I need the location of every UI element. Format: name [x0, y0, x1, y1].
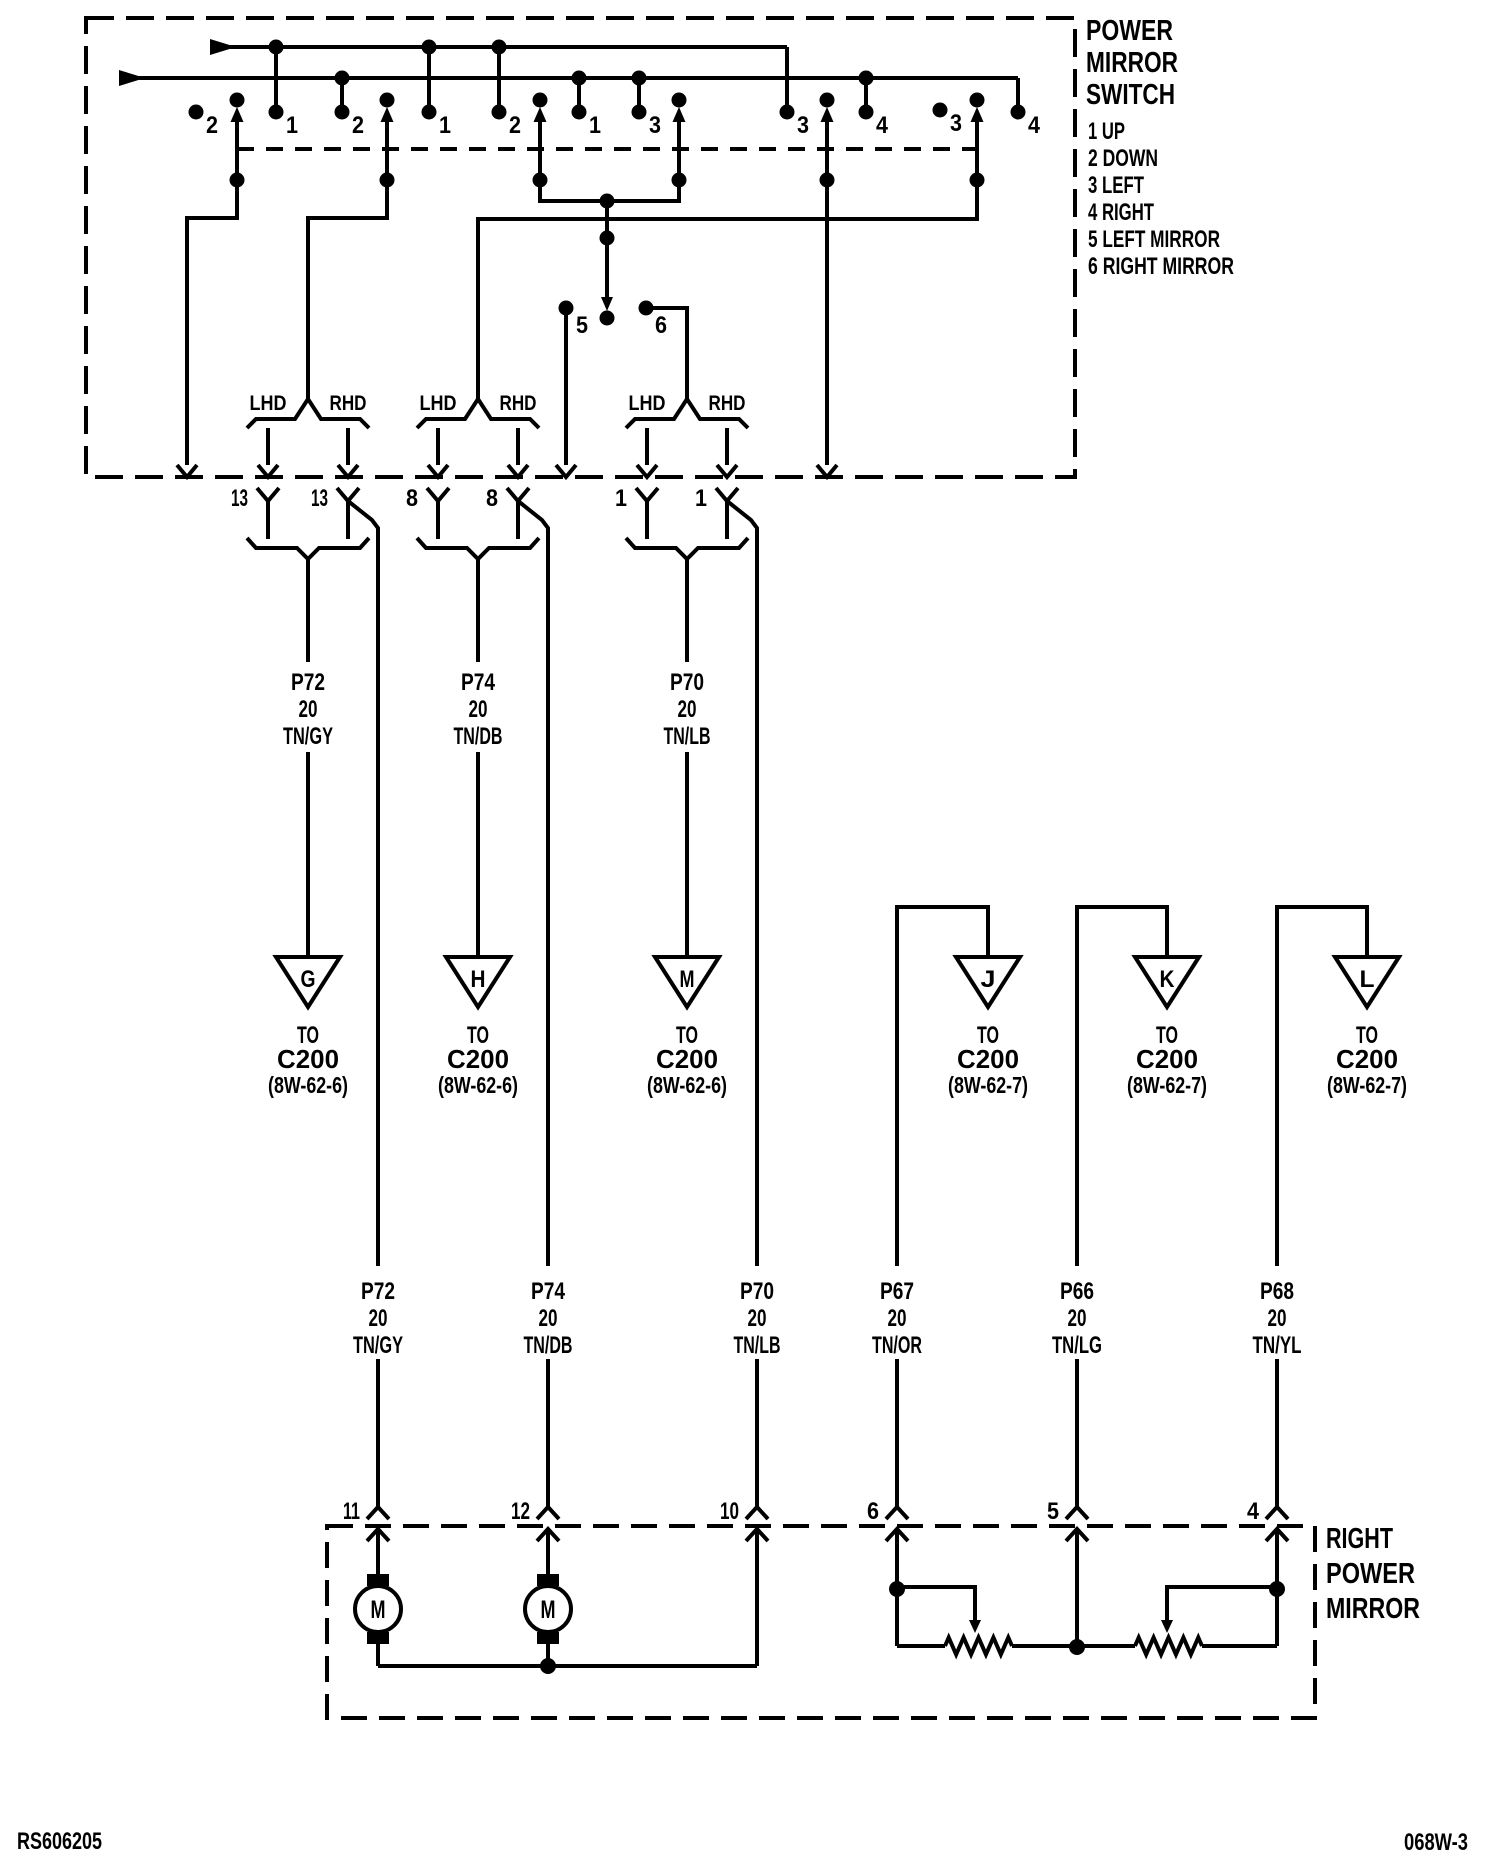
svg-text:P72: P72 [361, 1278, 395, 1305]
RHD arm wire x=348 [338, 428, 358, 477]
connector pin 13 (LHD) [231, 485, 279, 539]
svg-text:20: 20 [748, 1305, 767, 1332]
svg-text:20: 20 [888, 1305, 907, 1332]
destination text C200 under K [1127, 1022, 1207, 1098]
svg-text:TN/GY: TN/GY [283, 723, 333, 750]
svg-text:20: 20 [469, 696, 488, 723]
merge brace at x=308 [247, 538, 369, 559]
svg-text:TN/GY: TN/GY [353, 1332, 403, 1359]
svg-text:20: 20 [678, 696, 697, 723]
svg-text:(8W-62-7): (8W-62-7) [1127, 1072, 1207, 1098]
right power mirror box [327, 1526, 1315, 1718]
wire P70 lower segment [755, 1359, 759, 1507]
wiper 3 [533, 93, 608, 202]
svg-text:MIRROR: MIRROR [1326, 1593, 1420, 1625]
connector H triangle [446, 957, 510, 1007]
svg-text:P72: P72 [291, 669, 325, 696]
wire P74 lower segment [546, 1359, 550, 1507]
connector pin 8 (RHD) [486, 485, 529, 539]
svg-text:LHD: LHD [420, 392, 457, 415]
bus B junction dots [335, 71, 874, 86]
wire label P67 20 TN/OR [872, 1278, 922, 1359]
wire label P72 20 TN/GY [283, 669, 333, 750]
destination text C200 under J [948, 1022, 1028, 1098]
motor common wire [378, 1658, 757, 1674]
destination text C200 under L [1327, 1022, 1407, 1098]
RHD arm wire x=727 [717, 428, 737, 477]
wiper 4 [607, 93, 687, 202]
mechanical coupling dashed line [237, 147, 977, 151]
destination text C200 under G [268, 1022, 348, 1098]
connector L triangle [1335, 957, 1399, 1007]
svg-text:MIRROR: MIRROR [1086, 47, 1178, 79]
svg-text:2 DOWN: 2 DOWN [1088, 145, 1158, 172]
svg-text:M: M [680, 966, 695, 993]
svg-text:3: 3 [797, 112, 809, 139]
svg-text:POWER: POWER [1326, 1558, 1415, 1590]
connector pin 1 (RHD) [695, 485, 738, 539]
switch contact 2 at x=342 [335, 78, 365, 139]
svg-text:5: 5 [1047, 1498, 1059, 1525]
svg-text:1 UP: 1 UP [1088, 118, 1125, 145]
svg-text:P70: P70 [670, 669, 704, 696]
wire pin 4 down [1269, 1529, 1285, 1646]
switch contact 2 at x=196 [189, 105, 219, 140]
svg-text:11: 11 [343, 1498, 360, 1525]
svg-text:13: 13 [311, 485, 328, 512]
svg-text:20: 20 [1268, 1305, 1287, 1332]
svg-text:C200: C200 [1336, 1044, 1398, 1074]
svg-text:LHD: LHD [250, 392, 287, 415]
svg-text:SWITCH: SWITCH [1086, 79, 1175, 111]
svg-text:TN/OR: TN/OR [872, 1332, 922, 1359]
svg-text:20: 20 [1068, 1305, 1087, 1332]
R2 wiper arrow [1161, 1587, 1277, 1633]
svg-text:RIGHT: RIGHT [1326, 1523, 1393, 1555]
R1 wiper arrow [897, 1587, 981, 1633]
switch contact 3 at x=787 [780, 105, 810, 140]
wire P66 lower segment [1075, 1359, 1079, 1507]
svg-text:POWER: POWER [1086, 15, 1173, 47]
svg-text:(8W-62-7): (8W-62-7) [948, 1072, 1028, 1098]
svg-text:L: L [1360, 966, 1375, 993]
svg-text:TN/DB: TN/DB [524, 1332, 573, 1359]
svg-text:1: 1 [589, 112, 601, 139]
LHD arm wire x=438 [428, 428, 448, 477]
svg-text:6: 6 [655, 312, 667, 339]
svg-text:10: 10 [720, 1498, 739, 1525]
LHD/RHD brace at x=478 [417, 392, 539, 428]
pin 10 connector [720, 1498, 768, 1541]
svg-text:RHD: RHD [500, 392, 537, 415]
svg-text:20: 20 [299, 696, 318, 723]
svg-text:(8W-62-6): (8W-62-6) [268, 1072, 348, 1098]
wire pin 10 to motor common [755, 1529, 759, 1666]
connector pin 13 (RHD) [311, 485, 359, 539]
switch contact 1 at x=276 [269, 48, 299, 139]
svg-text:C200: C200 [447, 1044, 509, 1074]
wire label P74 20 TN/DB [454, 669, 503, 750]
mirror selector common node [600, 194, 615, 326]
contact 5 (left mirror) [556, 301, 588, 478]
svg-text:8: 8 [406, 485, 418, 512]
svg-text:TN/LG: TN/LG [1052, 1332, 1102, 1359]
svg-text:2: 2 [206, 112, 218, 139]
switch contact 3 at x=940 [933, 103, 963, 138]
svg-text:RHD: RHD [330, 392, 367, 415]
svg-text:2: 2 [352, 112, 364, 139]
wiper 6 [478, 93, 985, 400]
svg-text:P74: P74 [461, 669, 496, 696]
LHD/RHD brace at x=687 [626, 392, 748, 428]
pin 6 connector [867, 1498, 908, 1541]
switch legend [1088, 118, 1234, 280]
wire P74 to H [476, 559, 480, 956]
switch contact 2 at x=499 [492, 48, 522, 139]
wire label P70 20 TN/LB [664, 669, 711, 750]
bus B wire [119, 70, 1018, 112]
RHD branch wire to x=378 [348, 501, 378, 1266]
wire label P70 20 TN/LB (lower) [734, 1278, 781, 1359]
svg-text:C200: C200 [957, 1044, 1019, 1074]
wire label P68 20 TN/YL [1253, 1278, 1302, 1359]
right power mirror title [1326, 1523, 1420, 1625]
svg-text:6 RIGHT MIRROR: 6 RIGHT MIRROR [1088, 253, 1234, 280]
resistor R1 [897, 1638, 1135, 1655]
power mirror switch box [86, 18, 1075, 477]
wire label P72 20 TN/GY (lower) [353, 1278, 403, 1359]
svg-text:P68: P68 [1260, 1278, 1294, 1305]
wiper 1 [177, 93, 245, 478]
svg-text:20: 20 [369, 1305, 388, 1332]
LHD arm wire x=647 [637, 428, 657, 477]
wire P70 to M [685, 559, 689, 956]
svg-text:C200: C200 [656, 1044, 718, 1074]
svg-text:TN/LB: TN/LB [664, 723, 711, 750]
pin 4 connector [1247, 1498, 1288, 1541]
svg-text:TN/LB: TN/LB [734, 1332, 781, 1359]
svg-text:M: M [541, 1596, 556, 1624]
wire label P74 20 TN/DB (lower) [524, 1278, 573, 1359]
connector pin 1 (LHD) [615, 485, 658, 539]
wire P68 lower segment [1275, 1359, 1279, 1507]
motor M2 [525, 1529, 571, 1666]
svg-text:3: 3 [649, 112, 661, 139]
svg-text:RS606205: RS606205 [17, 1828, 102, 1855]
wire pin 6 down [889, 1529, 905, 1646]
wire pin 5 down [1069, 1529, 1085, 1655]
merge brace at x=478 [417, 538, 539, 559]
svg-text:M: M [371, 1596, 386, 1624]
switch contact 4 at x=866 [859, 78, 889, 139]
switch contact 1 at x=429 [422, 48, 452, 139]
RHD arm wire x=518 [508, 428, 528, 477]
wire to connector J [897, 907, 988, 1266]
connector K triangle [1135, 957, 1199, 1007]
svg-text:G: G [301, 966, 316, 993]
svg-text:1: 1 [695, 485, 707, 512]
wiper 2 [308, 93, 395, 400]
svg-text:1: 1 [286, 112, 298, 139]
svg-text:P70: P70 [740, 1278, 774, 1305]
svg-text:TN/DB: TN/DB [454, 723, 503, 750]
svg-text:4: 4 [876, 112, 889, 139]
svg-text:068W-3: 068W-3 [1404, 1829, 1468, 1856]
bus A junction dots [269, 40, 507, 55]
svg-text:6: 6 [867, 1498, 879, 1525]
svg-text:C200: C200 [1136, 1044, 1198, 1074]
switch title [1086, 15, 1178, 111]
svg-text:J: J [981, 966, 996, 993]
LHD arm wire x=268 [258, 428, 278, 477]
svg-text:3 LEFT: 3 LEFT [1088, 172, 1144, 199]
svg-text:LHD: LHD [629, 392, 666, 415]
svg-text:1: 1 [615, 485, 627, 512]
wire P67 lower segment [895, 1359, 899, 1507]
svg-text:TN/YL: TN/YL [1253, 1332, 1302, 1359]
wire label P66 20 TN/LG [1052, 1278, 1102, 1359]
svg-text:(8W-62-6): (8W-62-6) [438, 1072, 518, 1098]
LHD/RHD brace at x=308 [247, 392, 369, 428]
svg-text:5: 5 [576, 312, 588, 339]
svg-text:13: 13 [231, 485, 248, 512]
svg-text:(8W-62-7): (8W-62-7) [1327, 1072, 1407, 1098]
connector M triangle [655, 957, 719, 1007]
svg-text:K: K [1160, 966, 1176, 993]
svg-text:20: 20 [539, 1305, 558, 1332]
svg-text:2: 2 [509, 112, 521, 139]
connector J triangle [956, 957, 1020, 1007]
svg-text:4: 4 [1028, 112, 1041, 139]
svg-text:4: 4 [1247, 1498, 1260, 1525]
RHD branch wire to x=757 [727, 501, 757, 1266]
switch contact 4 at x=1018 [1011, 105, 1041, 140]
motor M1 [355, 1529, 401, 1666]
destination text C200 under M [647, 1022, 727, 1098]
pin 5 connector [1047, 1498, 1088, 1541]
destination text C200 under H [438, 1022, 518, 1098]
svg-text:RHD: RHD [709, 392, 746, 415]
svg-text:4 RIGHT: 4 RIGHT [1088, 199, 1154, 226]
switch contact 3 at x=639 [632, 78, 662, 139]
svg-text:12: 12 [511, 1498, 530, 1525]
wiper 5 [817, 93, 837, 478]
svg-text:P67: P67 [880, 1278, 914, 1305]
svg-text:(8W-62-6): (8W-62-6) [647, 1072, 727, 1098]
wire to connector L [1277, 907, 1367, 1266]
resistor R2 [1135, 1638, 1277, 1655]
contact 6 (right mirror) [639, 301, 688, 400]
svg-text:P74: P74 [531, 1278, 566, 1305]
svg-text:5 LEFT MIRROR: 5 LEFT MIRROR [1088, 226, 1220, 253]
svg-text:P66: P66 [1060, 1278, 1094, 1305]
wire P72 lower segment [376, 1359, 380, 1507]
svg-text:H: H [471, 966, 486, 993]
switch contact 1 at x=579 [572, 78, 602, 139]
wire P72 to G [306, 559, 310, 956]
RHD branch wire to x=548 [518, 501, 548, 1266]
bus A wire [210, 39, 787, 112]
merge brace at x=687 [626, 538, 748, 559]
connector pin 8 (LHD) [406, 485, 449, 539]
pin 11 connector [343, 1498, 389, 1541]
svg-text:3: 3 [950, 110, 962, 137]
connector G triangle [276, 957, 340, 1007]
svg-text:C200: C200 [277, 1044, 339, 1074]
wire to connector K [1077, 907, 1167, 1266]
svg-text:8: 8 [486, 485, 498, 512]
svg-text:1: 1 [439, 112, 451, 139]
pin 12 connector [511, 1498, 559, 1541]
